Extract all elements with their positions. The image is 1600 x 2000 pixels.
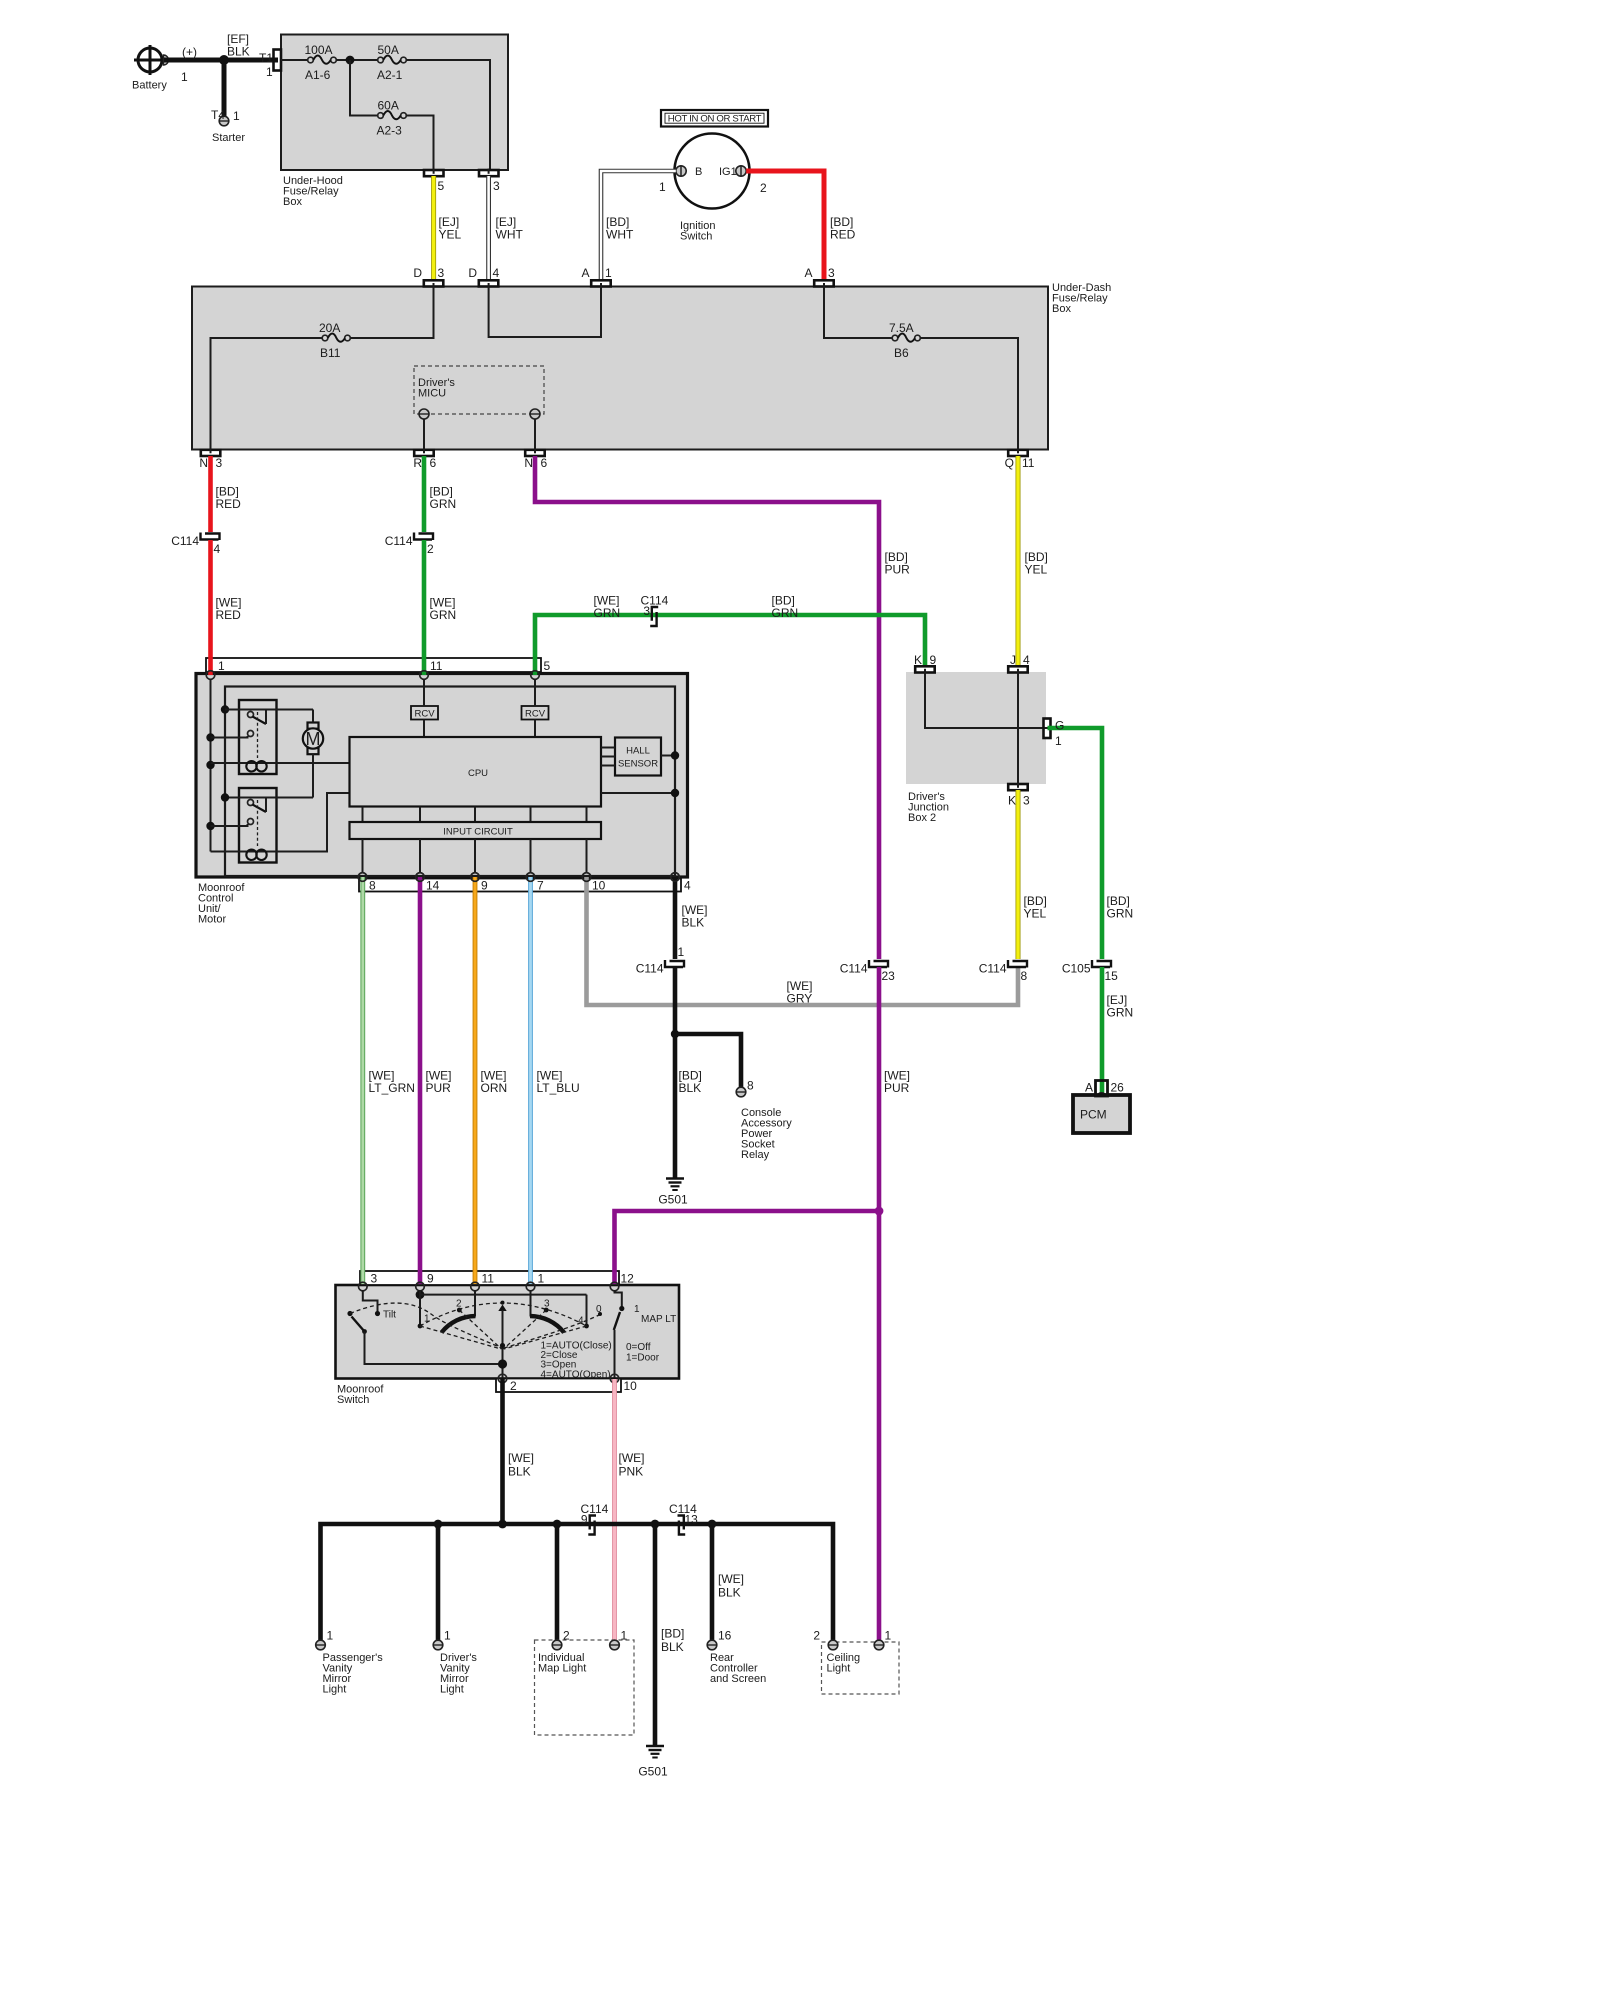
top connector strip [360, 1271, 619, 1285]
legs INPUT CIRCUIT to pins [363, 839, 587, 873]
connector Q11 [1008, 450, 1027, 456]
wire CPU right to border [601, 792, 675, 794]
INPUT CIRCUIT box [350, 822, 602, 839]
svg-text:B11: B11 [320, 346, 341, 360]
battery B1 [132, 45, 169, 92]
svg-text:PUR: PUR [884, 1081, 910, 1095]
ceiling light dashed box [822, 1642, 900, 1694]
black bus wire [321, 1524, 834, 1640]
inner box [225, 687, 675, 877]
svg-text:RED: RED [830, 228, 856, 242]
node bus dots [221, 705, 229, 713]
svg-text:Relay: Relay [741, 1149, 770, 1161]
pin 1 passenger's vanity mirror light [316, 1629, 383, 1696]
svg-text:BLK: BLK [718, 1586, 741, 1600]
connector J4 [1008, 666, 1027, 672]
rotary switch [350, 1290, 612, 1392]
svg-text:N: N [524, 456, 533, 470]
svg-text:SENSOR: SENSOR [618, 759, 658, 770]
connector D4 [479, 280, 499, 286]
bottom connector strip [496, 1379, 621, 1393]
node branch dot [671, 1030, 679, 1038]
connector N3 [201, 450, 221, 456]
svg-text:Tilt: Tilt [383, 1310, 396, 1321]
svg-text:G501: G501 [638, 1765, 668, 1779]
wire [BD] PUR N6 across [535, 456, 879, 959]
wire [BD] YEL Q11 down to J4 [1016, 456, 1021, 667]
svg-text:C114: C114 [840, 962, 868, 976]
node bus dots [434, 1520, 443, 1529]
svg-text:2: 2 [813, 1629, 820, 1643]
pin 1 individual map light [610, 1629, 628, 1650]
fuse 60A A2-3 [377, 99, 407, 138]
svg-text:1: 1 [233, 109, 240, 123]
svg-text:T1: T1 [259, 51, 273, 65]
relay K1 coil [211, 761, 350, 771]
connector K9 [915, 666, 935, 672]
svg-text:4: 4 [1023, 653, 1030, 667]
pin 16 rear controller [707, 1629, 766, 1686]
relay K2 box [239, 788, 277, 863]
connector A1 [591, 280, 611, 286]
connector D3 [424, 280, 444, 286]
svg-text:Light: Light [440, 1684, 464, 1696]
svg-text:LT_BLU: LT_BLU [537, 1081, 580, 1095]
wire T1 to fuse [281, 59, 308, 61]
svg-text:1: 1 [634, 1304, 640, 1315]
svg-text:3: 3 [371, 1272, 378, 1286]
svg-text:10: 10 [624, 1379, 638, 1393]
svg-text:PUR: PUR [885, 563, 911, 577]
connector C114 pin 23 [840, 960, 895, 983]
legs CPU to INPUT CIRCUIT [363, 807, 587, 823]
svg-text:J: J [1010, 653, 1016, 667]
svg-text:3: 3 [216, 456, 223, 470]
svg-text:GRN: GRN [1107, 1006, 1134, 1020]
svg-text:RCV: RCV [414, 708, 435, 719]
svg-text:BLK: BLK [508, 1465, 531, 1479]
svg-text:12: 12 [621, 1272, 635, 1286]
ignition switch SW1 [659, 134, 767, 243]
svg-text:4: 4 [214, 542, 221, 556]
svg-text:RED: RED [216, 497, 242, 511]
svg-text:GRN: GRN [772, 606, 799, 620]
pin 8 console relay [736, 1079, 792, 1162]
connector R6 [414, 450, 434, 456]
svg-text:G: G [1055, 719, 1064, 733]
wire stubs through strip [360, 1270, 365, 1284]
wire J4 to K3 [1017, 672, 1019, 784]
svg-text:INPUT CIRCUIT: INPUT CIRCUIT [443, 827, 513, 838]
wire [WE] BLK pin 4 [673, 892, 678, 960]
svg-text:R: R [413, 456, 422, 470]
wire drop rear controller [WE] BLK [710, 1524, 715, 1640]
svg-text:A: A [581, 266, 589, 280]
pin 2 ceiling light [813, 1629, 837, 1650]
svg-text:3: 3 [544, 1299, 550, 1310]
motor M1 [303, 710, 323, 798]
svg-text:Battery: Battery [132, 80, 167, 92]
svg-text:8: 8 [747, 1079, 754, 1093]
wire [WE] PNK switch pin 10 down [612, 1392, 617, 1640]
wire [BD] BLK to ground [653, 1524, 658, 1745]
svg-text:MICU: MICU [418, 388, 446, 400]
wire drop passenger's vanity [436, 1524, 441, 1640]
center arm [501, 1301, 505, 1305]
svg-text:RED: RED [216, 608, 242, 622]
wire [EJ] GRN to PCM [1100, 967, 1105, 1095]
svg-text:20A: 20A [319, 321, 340, 335]
wire [WE] LT_GRN pin 8 [360, 892, 365, 1272]
connector K3 [1008, 784, 1027, 790]
svg-text:Starter: Starter [212, 132, 245, 144]
svg-text:K: K [914, 653, 922, 667]
svg-text:Switch: Switch [680, 231, 712, 243]
connector N6 [525, 450, 545, 456]
wire [BD] GRN R6 down [422, 456, 427, 532]
svg-text:YEL: YEL [439, 228, 462, 242]
svg-text:9: 9 [481, 879, 488, 893]
wire [WE] RED to moonroof pin 1 [208, 540, 213, 674]
map lt switch [596, 1290, 676, 1392]
svg-text:YEL: YEL [1025, 563, 1048, 577]
connector pin 3 [479, 170, 499, 176]
wire [WE] PUR down and branch [877, 967, 882, 1640]
wire [WE] PUR pin 14 [418, 892, 423, 1272]
svg-text:15: 15 [1105, 969, 1119, 983]
svg-text:1: 1 [218, 659, 225, 673]
connector G [1044, 719, 1051, 739]
fuse 50A A2-1 [377, 43, 406, 82]
connector C114 pin 9 (horizontal) [581, 1502, 609, 1535]
svg-text:7.5A: 7.5A [889, 321, 914, 335]
svg-text:C114: C114 [636, 962, 664, 976]
wire 20A to N3 [211, 338, 323, 450]
svg-text:D: D [468, 266, 477, 280]
svg-text:PUR: PUR [426, 1081, 452, 1095]
svg-text:BLK: BLK [682, 916, 705, 930]
fuse 7.5A B6 [889, 321, 920, 360]
svg-text:14: 14 [426, 879, 440, 893]
wire 50A to right then down to pin 3 [406, 60, 490, 170]
wire stubs through strip [208, 657, 213, 675]
svg-text:Map Light: Map Light [538, 1663, 586, 1675]
svg-text:1: 1 [1055, 734, 1062, 748]
svg-text:2: 2 [510, 1379, 517, 1393]
svg-text:1: 1 [181, 70, 188, 84]
relay K2 contacts [211, 793, 314, 846]
CPU box [350, 737, 602, 807]
moonroof control unit outer box [196, 674, 688, 878]
Driver's MICU dashed box [414, 366, 544, 419]
svg-text:PNK: PNK [619, 1465, 644, 1479]
svg-text:2: 2 [563, 1629, 570, 1643]
svg-text:Motor: Motor [198, 914, 226, 926]
svg-text:9: 9 [427, 1272, 434, 1286]
wire [EJ] YEL [431, 176, 436, 280]
wire [BD] BLK to ground [673, 967, 678, 1178]
svg-text:T4: T4 [211, 108, 225, 122]
ground G501 (upper) [658, 1179, 688, 1207]
svg-text:GRN: GRN [430, 608, 457, 622]
svg-text:13: 13 [685, 1513, 699, 1527]
wire stubs through strip [360, 877, 365, 892]
svg-text:11: 11 [1022, 456, 1035, 470]
wire K3 [BD] YEL down [1016, 790, 1021, 959]
svg-text:Light: Light [827, 1663, 851, 1675]
svg-text:C105: C105 [1062, 962, 1091, 976]
top connector strip [206, 658, 541, 672]
pin circles [359, 1282, 368, 1291]
svg-text:3: 3 [643, 604, 650, 618]
wire branch down to 60A [350, 60, 378, 116]
svg-text:HOT IN ON OR START: HOT IN ON OR START [668, 114, 762, 125]
connector pin 5 [424, 170, 444, 176]
node purple branch [875, 1207, 884, 1216]
wire [WE] GRN to moonroof pin 11 [422, 540, 427, 674]
relay K1 box [239, 700, 277, 774]
svg-text:A: A [804, 266, 812, 280]
svg-text:1: 1 [605, 266, 612, 280]
Under-Hood Fuse/Relay Box [281, 35, 508, 171]
wire [WE] LT_BLU pin 7 [528, 892, 533, 1272]
svg-text:[WE]: [WE] [718, 1572, 744, 1586]
svg-text:C114: C114 [385, 534, 413, 548]
svg-text:BLK: BLK [227, 45, 250, 59]
svg-text:K: K [1008, 794, 1016, 808]
fuse 20A B11 [319, 321, 350, 360]
connector A3 [814, 280, 834, 286]
svg-text:1: 1 [885, 1629, 892, 1643]
pin 1 ceiling light [874, 1629, 891, 1650]
svg-text:1: 1 [659, 180, 666, 194]
wire A3 to 7.5A fuse to Q11 [824, 287, 892, 339]
HALL SENSOR box [601, 738, 679, 776]
svg-text:BLK: BLK [661, 1640, 684, 1654]
svg-text:RCV: RCV [525, 708, 546, 719]
svg-text:9: 9 [581, 1513, 588, 1527]
connector T1 [259, 50, 281, 80]
connector C105 pin 15 [1062, 960, 1118, 983]
pin 11 circle [420, 671, 429, 680]
svg-text:[WE]: [WE] [508, 1451, 534, 1465]
svg-text:GRY: GRY [787, 992, 813, 1006]
svg-text:11: 11 [482, 1272, 495, 1286]
starter pin 1 [211, 108, 245, 144]
svg-text:8: 8 [1021, 969, 1028, 983]
dashed arcs [420, 1303, 587, 1326]
svg-text:LT_GRN: LT_GRN [369, 1081, 415, 1095]
svg-text:1: 1 [538, 1272, 545, 1286]
svg-text:N: N [199, 456, 208, 470]
svg-text:WHT: WHT [606, 228, 634, 242]
svg-text:YEL: YEL [1024, 907, 1047, 921]
svg-text:6: 6 [430, 456, 437, 470]
svg-text:1: 1 [266, 65, 273, 79]
wire K9 to G inside box [925, 672, 1047, 728]
moonroof switch box [336, 1285, 680, 1379]
svg-text:Light: Light [323, 1684, 347, 1696]
svg-text:8: 8 [369, 879, 376, 893]
svg-text:(+): (+) [182, 45, 197, 59]
svg-text:2: 2 [456, 1299, 462, 1310]
svg-text:C114: C114 [979, 962, 1007, 976]
wire [WE]/[BD] GRN horizontal to K9 [535, 615, 925, 674]
connector C114 pin 3 (horizontal) [641, 594, 669, 627]
RCV box 1 [411, 679, 438, 737]
wire 60A down to pin 5 [406, 116, 433, 170]
svg-text:HALL: HALL [626, 746, 650, 757]
svg-text:MAP LT: MAP LT [641, 1314, 676, 1325]
svg-text:60A: 60A [378, 99, 399, 113]
pin 5 circle [531, 671, 540, 680]
wire drop map light pin 2 [555, 1524, 560, 1640]
svg-text:G501: G501 [658, 1193, 688, 1207]
pin 1 driver's vanity mirror light [433, 1629, 477, 1696]
svg-text:26: 26 [1111, 1081, 1125, 1095]
svg-text:5: 5 [438, 179, 445, 193]
svg-text:B6: B6 [894, 346, 909, 360]
svg-text:1: 1 [621, 1629, 628, 1643]
svg-text:5: 5 [544, 659, 551, 673]
svg-text:ORN: ORN [481, 1081, 508, 1095]
svg-text:Box 2: Box 2 [908, 812, 936, 824]
svg-text:[BD]: [BD] [661, 1627, 684, 1641]
RCV box 2 [522, 679, 549, 737]
svg-text:1: 1 [678, 945, 685, 959]
svg-text:3: 3 [438, 266, 445, 280]
wire MICU to R6 [423, 419, 425, 450]
svg-text:2: 2 [760, 181, 767, 195]
relay K2 coil [211, 793, 350, 860]
wire [336, 59, 378, 61]
pin 1 circle [206, 671, 215, 680]
svg-text:1: 1 [327, 1629, 334, 1643]
pin 2 individual map light [552, 1629, 570, 1650]
wire [BD] RED ignition IG1 to A3 [746, 171, 824, 280]
svg-text:and Screen: and Screen [710, 1673, 766, 1685]
svg-text:23: 23 [882, 969, 896, 983]
svg-text:10: 10 [592, 879, 606, 893]
driver's junction box 2 [906, 672, 1046, 784]
svg-text:A2-3: A2-3 [377, 124, 403, 138]
svg-text:2: 2 [427, 542, 434, 556]
svg-text:3: 3 [1023, 794, 1030, 808]
wire stubs through strip [500, 1379, 505, 1393]
svg-text:CPU: CPU [468, 768, 488, 779]
connector C114 pin 2 [385, 533, 434, 557]
wire junction to starter [222, 60, 227, 116]
svg-text:6: 6 [541, 456, 548, 470]
svg-text:4: 4 [684, 879, 691, 893]
svg-text:7: 7 [537, 879, 544, 893]
wire [BD] WHT ignition B to A1 [601, 171, 676, 280]
svg-text:GRN: GRN [430, 497, 457, 511]
svg-text:D: D [413, 266, 422, 280]
connector C114 pin 1 [636, 945, 685, 976]
wire MICU to N6 [534, 419, 536, 450]
svg-text:PCM: PCM [1080, 1108, 1107, 1122]
wire [BD] RED N3 down [208, 456, 213, 532]
svg-text:[WE]: [WE] [619, 1451, 645, 1465]
bottom connector strip [359, 879, 681, 892]
wire [EJ] WHT [486, 176, 491, 280]
svg-text:3: 3 [828, 266, 835, 280]
svg-text:C114: C114 [171, 534, 199, 548]
ground G501 (lower) [638, 1746, 668, 1779]
svg-text:Switch: Switch [337, 1394, 369, 1406]
svg-text:GRN: GRN [1107, 907, 1134, 921]
HOT IN ON OR START box [661, 110, 768, 127]
svg-text:Box: Box [1052, 303, 1071, 315]
bottom pin circles [358, 873, 367, 882]
wire D4 to A1 [489, 287, 601, 338]
svg-text:B: B [695, 166, 702, 178]
wire branch to relay pin 8 [675, 1034, 741, 1087]
svg-text:A2-1: A2-1 [377, 68, 403, 82]
wire battery to T1 [164, 58, 278, 63]
svg-text:4: 4 [493, 266, 500, 280]
svg-text:A1-6: A1-6 [305, 68, 331, 82]
PCM box [1073, 1081, 1130, 1134]
svg-text:Q: Q [1005, 456, 1014, 470]
node battery junction [219, 55, 229, 65]
connector C114 pin 13 (horizontal) [669, 1502, 698, 1535]
node fuse junction [346, 56, 355, 65]
wire G to PCM green [1048, 728, 1103, 959]
svg-text:3: 3 [493, 179, 500, 193]
svg-text:GRN: GRN [594, 606, 621, 620]
wire purple branch to switch pin 12 [615, 1211, 880, 1271]
svg-text:11: 11 [430, 659, 443, 673]
svg-text:BLK: BLK [679, 1081, 702, 1095]
svg-text:0: 0 [596, 1304, 602, 1315]
wire [WE] ORN pin 9 [473, 892, 478, 1272]
wire pin1 bus down [210, 679, 212, 852]
connector C114 pin 4 [171, 533, 220, 557]
svg-text:16: 16 [718, 1629, 732, 1643]
svg-text:100A: 100A [305, 43, 333, 57]
svg-text:IG1: IG1 [719, 166, 737, 178]
svg-text:M: M [306, 729, 321, 749]
svg-text:9: 9 [930, 653, 937, 667]
wire D3 to 20A fuse to N3 [350, 287, 433, 339]
tilt switch [347, 1290, 502, 1364]
svg-text:A: A [1085, 1081, 1093, 1095]
svg-text:WHT: WHT [496, 228, 524, 242]
svg-text:1: 1 [444, 1629, 451, 1643]
svg-text:50A: 50A [378, 43, 399, 57]
svg-text:0=Off: 0=Off [626, 1342, 651, 1353]
svg-text:1=Door: 1=Door [626, 1353, 660, 1364]
svg-text:Box: Box [283, 196, 302, 208]
wire [WE] BLK switch pin 2 down [500, 1392, 505, 1524]
individual map light dashed box [535, 1640, 635, 1735]
connector C114 pin 8 [979, 960, 1028, 983]
wire [WE] GRY pin 10 [587, 892, 1019, 1006]
fuse 100A A1-6 [305, 43, 337, 82]
relay K1 contacts [211, 710, 314, 759]
